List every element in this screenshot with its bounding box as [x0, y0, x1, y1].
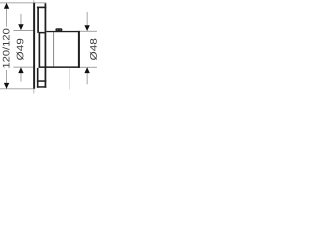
dimension line 120/120 lower segment [5, 70, 8, 89]
side view: middle bar (handle edge) [39, 33, 41, 67]
side view: lower divider line [37, 80, 46, 82]
dimension line Ø48 upper overshoot [86, 12, 89, 25]
arrow up 120/120 top [4, 3, 9, 9]
background [0, 0, 100, 100]
top view: hairline below handle [68, 68, 71, 90]
arrow up Ø49 [18, 67, 23, 73]
dimension line Ø48 lower overshoot [86, 73, 89, 84]
arrow down Ø49 [18, 24, 23, 30]
extension line bottom (plate bottom, y=88.8) [0, 87, 35, 90]
side view: bottom face edge [37, 86, 46, 88]
label 120/120 [3, 29, 10, 68]
extension line Ø49 top (y=30.4) [13, 29, 33, 32]
side view: lower box left edge [37, 68, 39, 88]
arrow down 120/120 bottom [4, 83, 9, 89]
top view: left edge of handle rect [52, 32, 55, 66]
extension line Ø48 top (y=31.2) [80, 30, 97, 33]
side view: wall plate bar [33, 3, 35, 89]
tick overshoot top at plate left [33, 0, 36, 3]
top view: bottom line (handle front face, shared) [39, 66, 80, 68]
extension line top (plate top edge + top face, y=2.85) [0, 2, 46, 5]
label Ø49 [16, 39, 23, 60]
tick overshoot bottom at plate left [33, 89, 36, 93]
side view: body right face bar [45, 3, 47, 87]
top view: top line (wall line to front rect) [46, 31, 80, 32]
button engraved slits [57, 29, 60, 31]
dimension line 120/120 upper segment [5, 3, 8, 27]
label Ø48 [90, 39, 97, 60]
arrow down Ø48 [84, 25, 89, 31]
side view: upper box left edge [37, 7, 39, 33]
arrow up Ø48 [84, 67, 89, 73]
dimension line Ø49 lower overshoot [20, 73, 23, 82]
top view: right edge of handle rect [78, 31, 80, 68]
side view: top divider line [37, 7, 46, 9]
side view: step line at y32.6 [39, 32, 45, 34]
extension line Ø49 bottom (y=67.1) [13, 66, 33, 69]
top view: select button on top edge [55, 28, 62, 31]
extension line Ø48 bottom (y=67.2) [80, 66, 97, 69]
dimension line Ø49 upper overshoot [20, 14, 23, 25]
